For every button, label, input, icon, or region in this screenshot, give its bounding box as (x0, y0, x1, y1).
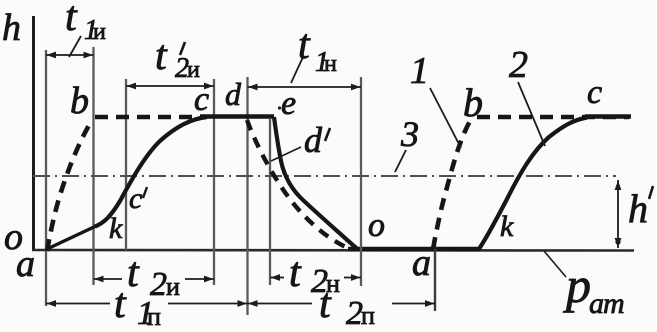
node line o x=361 (360, 77, 362, 286)
dim arrow h' x=618 vertical (615, 180, 622, 248)
svg-text:h: h (2, 7, 21, 49)
node line c' x=126 (125, 79, 127, 250)
axis h (vertical) (32, 16, 35, 251)
node line t0 x=46 (45, 50, 47, 306)
svg-text:d: d (225, 76, 242, 112)
dim arrow t1i y=55 (46, 52, 94, 59)
dim arrow t1n y=87 (248, 84, 362, 91)
svg-text:e: e (281, 85, 296, 122)
node line a2 x=435 (434, 240, 436, 311)
leader for 2 (518, 82, 545, 146)
curve 1 dashed plateau (95, 115, 203, 120)
svg-text:a: a (412, 242, 431, 284)
svg-text:a: a (16, 243, 35, 285)
leader for 1 (430, 88, 461, 148)
leader for 3 (395, 150, 406, 172)
svg-text:и: и (166, 272, 180, 301)
node line e x=270 (269, 119, 271, 285)
svg-text:и: и (187, 57, 200, 83)
curve dashed rise 2 (433, 121, 470, 249)
curve plateau solid c-e (200, 114, 274, 119)
svg-text:t: t (114, 281, 127, 327)
wire thick zero segment (348, 247, 480, 251)
svg-text:p: p (563, 257, 591, 313)
node line d x=247.5 (246, 77, 248, 315)
svg-text:t: t (319, 281, 332, 327)
curve 2 solid S rise (95, 117, 207, 227)
wire ramp a-k (46, 227, 95, 250)
svg-text:t: t (65, 0, 78, 40)
line 3 dash-dot mid level (33, 175, 616, 177)
curve solid descent e-o (274, 117, 357, 249)
svg-text:k: k (109, 212, 123, 245)
leader for t1n (291, 57, 303, 83)
curve 2 solid rise 2 (479, 118, 587, 250)
dim arrow t1p y=303.5 (46, 300, 248, 307)
svg-text:b: b (70, 80, 89, 122)
svg-text:c: c (129, 182, 142, 215)
svg-text:t: t (298, 22, 311, 68)
svg-text:t: t (127, 250, 140, 296)
svg-text:t: t (289, 250, 302, 296)
svg-text:п: п (361, 301, 375, 330)
curve 1 dashed plateau 2 (477, 115, 629, 120)
leader for t1i (69, 36, 81, 57)
curve solid plateau 2 (585, 114, 631, 118)
curve dashed descent d-o (247, 120, 348, 248)
svg-text:н: н (324, 51, 337, 77)
svg-text:o: o (368, 207, 385, 244)
svg-text:c: c (587, 74, 602, 111)
svg-text:1: 1 (410, 50, 429, 92)
svg-text:h: h (628, 186, 648, 231)
svg-text:2: 2 (509, 44, 528, 86)
svg-text:d: d (304, 120, 323, 160)
dim arrow t2i y=279 (94, 276, 215, 283)
svg-text:c: c (194, 81, 209, 118)
svg-text:п: п (147, 302, 161, 331)
node dot e (278, 106, 281, 109)
dim arrow t2p y=303.5 (248, 300, 436, 307)
leader for p_at (544, 251, 566, 277)
curve 1 dashed rise (47, 120, 92, 251)
node line k x=93.5 (92, 47, 94, 285)
dim arrow t'2i y=86 (126, 83, 214, 90)
svg-text:b: b (463, 80, 483, 125)
svg-text:t: t (155, 33, 168, 79)
svg-text:ат: ат (589, 287, 624, 320)
svg-text:k: k (500, 210, 514, 243)
dim arrow t2n y=277.5 (270, 274, 361, 281)
baseline p_at (32, 249, 634, 252)
leader for d' (271, 147, 301, 161)
node line c x=214 (213, 79, 215, 285)
svg-text:3: 3 (400, 114, 419, 154)
svg-text:и: и (93, 19, 106, 45)
